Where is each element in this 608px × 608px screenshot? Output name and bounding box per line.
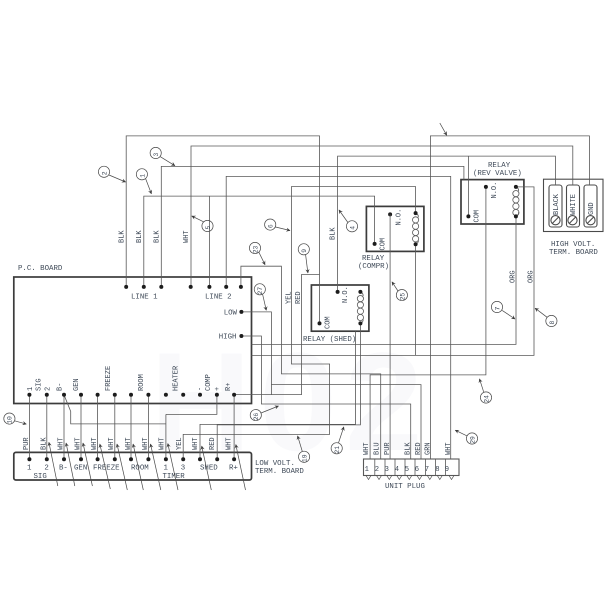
svg-text:GRN: GRN (425, 442, 433, 455)
wire line1-2 to compr COM (144, 196, 375, 287)
unit plug pin tabs (366, 476, 454, 480)
wire color labels between boards (23, 437, 234, 450)
svg-text:1: 1 (164, 465, 169, 473)
relay (compr) coil (413, 213, 419, 244)
terminal WHITE (567, 185, 580, 227)
circled ref 8 (535, 308, 557, 326)
svg-text:RED: RED (415, 442, 423, 455)
svg-text:TIMER: TIMER (163, 473, 186, 481)
wire line2-2 branch (208, 196, 210, 287)
wire BLK line1-3 to rev valve frame (161, 166, 464, 287)
circled ref 19 (298, 436, 310, 463)
svg-text:27: 27 (257, 287, 264, 295)
wire ORG rev coil top to pc board (252, 187, 535, 356)
unit plug cell dividers (375, 459, 446, 476)
top wire labels (119, 227, 536, 304)
wire pc B- to low B- (63, 395, 65, 460)
svg-text:BLK: BLK (136, 230, 144, 243)
svg-text:4: 4 (395, 466, 399, 474)
svg-text:PUR: PUR (384, 442, 392, 455)
wire shed N.O. to BLACK terminal (338, 156, 556, 292)
unit plug pin numbers (365, 466, 450, 474)
wire pc R+ to low R+ (233, 395, 235, 460)
svg-text:29: 29 (469, 436, 476, 444)
wire ORG rev coil bottom to pc board (252, 216, 517, 344)
svg-text:LOW: LOW (224, 310, 238, 318)
svg-text:RED: RED (209, 437, 217, 450)
circled ref 7 (491, 301, 515, 319)
wire YEL net low-3 to compr coil top (183, 187, 415, 460)
relay (shed) coil (357, 292, 363, 324)
wire HIGH to plug pin 5 (241, 336, 410, 459)
svg-text:WHT: WHT (226, 437, 234, 450)
wire GND to plug pin 7 (430, 136, 589, 459)
svg-text:GND: GND (588, 202, 596, 215)
svg-text:6: 6 (415, 466, 419, 474)
wire COMP+ to low timer 1 (166, 395, 217, 415)
svg-text:3: 3 (385, 466, 389, 474)
wire pc room-l (130, 395, 132, 460)
svg-text:COMP: COMP (205, 374, 213, 391)
low volt terminal board outline (14, 452, 252, 480)
svg-text:B-: B- (59, 465, 68, 473)
svg-text:7: 7 (425, 466, 429, 474)
svg-text:WHT: WHT (159, 437, 167, 450)
svg-text:HIGH VOLT.: HIGH VOLT. (551, 241, 595, 249)
svg-text:BLK: BLK (405, 442, 413, 455)
svg-text:9: 9 (445, 466, 449, 474)
circled ref 23 (249, 242, 265, 264)
svg-text:COM: COM (325, 316, 333, 329)
wire compr coil bottom branch (415, 244, 417, 355)
svg-text:2: 2 (101, 171, 108, 175)
wire low timer-1 riser (165, 414, 167, 459)
circled ref 25 (392, 282, 408, 301)
wire pc freeze-l (97, 395, 99, 460)
relay (compr) box (366, 206, 424, 251)
svg-text:2: 2 (45, 387, 53, 391)
svg-text:8: 8 (435, 466, 439, 474)
wire pc 1 to low 1 (28, 395, 30, 460)
wire BLK line1-1 to shed relay COM (126, 136, 319, 324)
P.C. board outline (14, 277, 252, 404)
circled ref 21 (331, 427, 344, 454)
svg-text:19: 19 (302, 454, 309, 462)
circled ref 29 (455, 430, 477, 444)
wire pc freeze-r (114, 395, 116, 460)
svg-text:PUR: PUR (23, 437, 31, 450)
svg-text:1: 1 (365, 466, 369, 474)
svg-text:LINE 2: LINE 2 (205, 294, 232, 302)
circled ref 9 (298, 244, 309, 273)
svg-text:LOW VOLT.: LOW VOLT. (255, 460, 295, 468)
wire compr N.O. to plug pin 3 (389, 214, 391, 459)
relay terminal dots (318, 185, 518, 326)
wire line2-4 to plug pin 2 (241, 266, 381, 459)
wire WHT line2-1 to WHITE terminal (191, 146, 573, 287)
svg-text:SIG: SIG (36, 378, 44, 391)
svg-text:WHT: WHT (91, 437, 99, 450)
svg-text:BLK: BLK (154, 230, 162, 243)
svg-text:WHT: WHT (58, 437, 66, 450)
svg-text:WHT: WHT (142, 437, 150, 450)
svg-text:-: - (197, 387, 205, 391)
leader arrows on low board wires (49, 442, 246, 490)
terminal BLACK (549, 185, 562, 227)
svg-text:FREEZE: FREEZE (93, 465, 120, 473)
svg-text:BLK: BLK (330, 227, 338, 240)
svg-text:WHT: WHT (363, 442, 371, 455)
pc bottom labels (27, 365, 233, 391)
circled ref 27 (254, 284, 266, 311)
svg-text:7: 7 (494, 307, 501, 311)
circled ref 5 (192, 216, 213, 232)
svg-text:N.O.: N.O. (342, 286, 350, 303)
svg-text:ROOM: ROOM (138, 374, 146, 391)
svg-text:2: 2 (375, 466, 379, 474)
wire low SHED left to shed relay frame (200, 331, 356, 459)
svg-text:4: 4 (349, 226, 356, 230)
svg-text:(REV VALVE): (REV VALVE) (473, 170, 522, 178)
unit plug wire labels (363, 442, 453, 455)
wire rev valve COM branch (467, 156, 469, 216)
circled ref 4 (339, 210, 358, 232)
svg-text:3: 3 (181, 465, 185, 473)
svg-text:(COMPR): (COMPR) (358, 263, 389, 271)
svg-text:RELAY: RELAY (362, 255, 385, 263)
circled ref 1 (136, 169, 151, 194)
svg-text:HIGH: HIGH (219, 334, 237, 342)
svg-text:24: 24 (483, 395, 490, 403)
svg-text:ORG: ORG (528, 270, 536, 283)
svg-text:WHT: WHT (183, 230, 191, 243)
wire pc room-r (147, 395, 149, 460)
svg-text:LINE 1: LINE 1 (131, 294, 158, 302)
svg-text:RELAY (SHED): RELAY (SHED) (303, 336, 356, 344)
svg-text:BLK: BLK (119, 230, 127, 243)
svg-text:21: 21 (334, 446, 341, 454)
svg-text:TERM. BOARD: TERM. BOARD (255, 468, 304, 476)
circled ref 6 (265, 219, 290, 231)
svg-text:ORG: ORG (510, 270, 518, 283)
wire line2-3 to plug pin 9 (226, 176, 451, 459)
circled ref 26 (250, 406, 278, 421)
svg-text:WHITE: WHITE (570, 194, 578, 215)
pc board top terminal dots (124, 285, 243, 289)
pc board bottom terminal dots (27, 393, 236, 397)
svg-text:GEN: GEN (74, 465, 87, 473)
svg-text:YEL: YEL (176, 437, 184, 450)
wire to plug pin 6 (271, 385, 421, 460)
svg-text:N.O.: N.O. (396, 209, 404, 226)
svg-text:FREEZE: FREEZE (105, 366, 113, 391)
relay (rev valve) box (461, 180, 524, 224)
svg-text:WHT: WHT (125, 437, 133, 450)
svg-text:BLACK: BLACK (553, 193, 561, 215)
unit plug body (364, 459, 460, 476)
svg-text:3: 3 (153, 153, 160, 157)
low volt terminal labels (27, 465, 238, 481)
low volt terminal dots (27, 457, 236, 461)
svg-text:SHED: SHED (200, 465, 218, 473)
relay (rev valve) coil (513, 187, 519, 217)
svg-text:H02: H02 (150, 323, 431, 480)
svg-text:SIG: SIG (34, 473, 47, 481)
svg-text:WHT: WHT (445, 442, 453, 455)
circled ref 10 (4, 413, 27, 424)
relay (shed) box (311, 285, 369, 331)
svg-text:GEN: GEN (73, 378, 81, 391)
wire LOW branch (241, 312, 271, 395)
circled ref 24 (480, 379, 492, 403)
wire pc GEN to low GEN (80, 395, 82, 460)
svg-text:9: 9 (301, 249, 308, 253)
svg-text:10: 10 (7, 416, 14, 424)
wire shed coil bottom to low SHED right (217, 323, 360, 459)
svg-text:N.O.: N.O. (491, 182, 499, 199)
svg-text:6: 6 (268, 224, 275, 228)
HIGH terminal (239, 334, 243, 338)
svg-text:UNIT PLUG: UNIT PLUG (385, 483, 425, 491)
svg-text:YEL: YEL (286, 291, 294, 304)
svg-text:RELAY: RELAY (488, 162, 511, 170)
svg-text:TERM. BOARD: TERM. BOARD (549, 249, 598, 257)
svg-text:8: 8 (549, 321, 556, 325)
svg-text:5: 5 (205, 226, 212, 230)
terminal GND (584, 185, 597, 227)
svg-text:ROOM: ROOM (131, 465, 149, 473)
svg-text:1: 1 (27, 387, 35, 391)
svg-text:COM: COM (474, 210, 482, 223)
wire plug pin 1 to rev valve N.O. (370, 187, 486, 459)
svg-text:BLK: BLK (40, 437, 48, 450)
svg-text:B-: B- (57, 383, 65, 391)
svg-text:23: 23 (252, 245, 259, 253)
svg-text:5: 5 (405, 466, 409, 474)
wire pc 2 to low 2 (46, 395, 48, 460)
unlabeled top leader (440, 123, 447, 135)
svg-text:R+: R+ (225, 383, 233, 391)
circled ref 2 (98, 166, 125, 182)
circled ref 3 (150, 147, 175, 165)
svg-text:WHT: WHT (75, 437, 83, 450)
svg-text:+: + (214, 387, 222, 391)
svg-text:25: 25 (399, 293, 406, 301)
LOW terminal (239, 310, 243, 314)
svg-text:1: 1 (139, 174, 146, 178)
svg-text:BLU: BLU (374, 442, 382, 455)
high volt term board outer box (544, 179, 604, 231)
wire R+ branch to shed COM node (234, 275, 319, 395)
svg-text:P.C. BOARD: P.C. BOARD (18, 265, 63, 273)
svg-text:WHT: WHT (192, 437, 200, 450)
wire B- jog branch (64, 395, 166, 424)
svg-text:R+: R+ (229, 465, 238, 473)
svg-text:2: 2 (44, 465, 48, 473)
svg-text:RED: RED (295, 291, 303, 304)
svg-text:WHT: WHT (108, 437, 116, 450)
svg-text:1: 1 (27, 465, 32, 473)
svg-text:26: 26 (253, 413, 260, 421)
svg-text:COM: COM (380, 238, 388, 251)
svg-text:HEATER: HEATER (173, 365, 181, 391)
